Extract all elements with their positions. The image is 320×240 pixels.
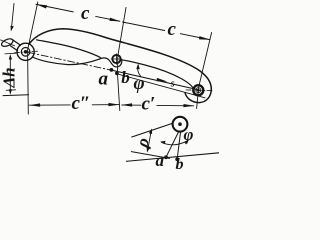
middle pivot cross: [111, 54, 122, 65]
right eye horizontal center line: [186, 89, 213, 92]
detail top line: [132, 124, 172, 138]
left pivot inner circle: [21, 48, 30, 57]
extension line from right eye up to dimension c: [197, 33, 212, 109]
svg-text:s: s: [170, 79, 175, 90]
lever inner line (left arm): [37, 40, 101, 58]
left pivot outer circle: [17, 43, 34, 60]
tail lower line: [10, 46, 17, 51]
tail upper line: [12, 40, 20, 46]
delta-h top reference tick: [5, 52, 16, 55]
dimension c left: left arrowhead: [36, 4, 47, 8]
detail phi arc: [162, 141, 188, 145]
svg-text:a: a: [156, 151, 165, 170]
dimension c left: extension line from left pivot up: [28, 2, 38, 114]
right eye center dot: [197, 89, 200, 92]
detail link line to b: [177, 132, 180, 159]
svg-text:c″: c″: [72, 93, 91, 114]
dimension c left: right arrowhead: [110, 18, 121, 22]
detail rho dimension line: [148, 130, 152, 150]
svg-text:c: c: [81, 3, 90, 24]
svg-text:a: a: [99, 69, 109, 90]
line B from b passing under right eye: [118, 74, 206, 98]
dimension c left: line: [36, 4, 120, 21]
svg-text:c′: c′: [142, 94, 156, 115]
delta-h bottom reference tick: [6, 89, 15, 92]
svg-text:c: c: [168, 19, 177, 40]
svg-text:b: b: [121, 68, 130, 87]
lever bottom edge (left arm): [33, 57, 100, 65]
extension line from middle pivot up to dimension c: [118, 8, 127, 111]
dimension c right: right arrowhead: [199, 36, 211, 40]
lever top edge and wrap around right eye: [29, 29, 211, 103]
dimension c right: line: [123, 22, 210, 40]
line A from a through to right eye center: [112, 70, 198, 90]
svg-text:φ: φ: [134, 73, 145, 94]
dash-dot center line from left pivot to point a: [28, 52, 112, 70]
dimension c'' line: [29, 104, 119, 107]
node b dot: [115, 71, 119, 75]
arrow onto tail tip: [12, 4, 14, 28]
right eye inner hole: [196, 88, 201, 93]
dimension c' line: [122, 104, 194, 107]
delta-h dimension line: [9, 57, 11, 93]
tail tip ellipse: [0, 37, 14, 48]
arrow on line A: [157, 78, 168, 82]
svg-text:Δh: Δh: [0, 67, 19, 88]
detail roller center dot: [178, 122, 182, 126]
detail roller circle: [173, 117, 188, 132]
middle pivot circle: [112, 55, 120, 63]
detail base line: [127, 153, 220, 162]
angle phi arc with arrow: [138, 66, 141, 77]
left pivot horizontal center line: [15, 51, 38, 53]
left pivot center dot: [24, 50, 28, 54]
middle boss bump and inner line (right arm): [99, 58, 193, 88]
detail node b dot: [175, 157, 179, 161]
tail axis line: [1, 40, 15, 46]
right eye boss ring: [193, 85, 203, 95]
detail line through a: [131, 152, 169, 159]
svg-text:φ: φ: [184, 125, 194, 144]
detail link line to a: [166, 131, 179, 156]
svg-text:b: b: [176, 156, 184, 173]
node a dot: [110, 68, 114, 72]
baseline: [3, 94, 29, 97]
detail node a dot: [164, 155, 168, 159]
